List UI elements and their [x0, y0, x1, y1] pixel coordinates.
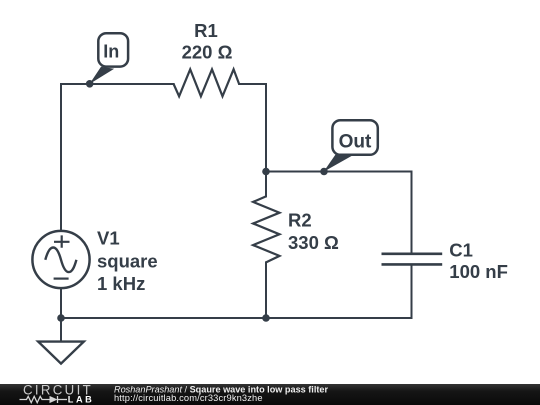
- junction dot R1/R2/Out net: [262, 168, 270, 176]
- svg-text:R1: R1: [194, 20, 218, 41]
- node In flag: [90, 33, 129, 84]
- svg-text:C1: C1: [449, 239, 473, 260]
- svg-text:http://circuitlab.com/cr33cr9k: http://circuitlab.com/cr33cr9kn3zhe: [114, 393, 263, 403]
- CircuitLab logo resistor-diode glyph: [20, 396, 68, 403]
- resistor R1 value label: [182, 20, 233, 63]
- wire C1 top lead: [411, 172, 413, 253]
- svg-text:220 Ω: 220 Ω: [182, 42, 233, 63]
- ground: [38, 342, 84, 364]
- node In junction dot: [86, 80, 94, 88]
- svg-text:R2: R2: [288, 210, 312, 231]
- node Out junction dot: [320, 168, 328, 176]
- wire R1 right lead to corner and down: [239, 84, 266, 172]
- capacitor C1 value label: [449, 239, 508, 282]
- wire top-left horizontal (In node to R1): [61, 83, 174, 85]
- junction dot R2 bottom: [262, 314, 270, 322]
- resistor R1: [174, 69, 240, 96]
- svg-text:square: square: [97, 250, 158, 271]
- wire C1 bottom lead: [411, 265, 413, 318]
- svg-text:V1: V1: [97, 228, 120, 249]
- svg-text:100 nF: 100 nF: [449, 261, 508, 282]
- capacitor C1: [382, 254, 443, 265]
- wire Out horizontal (node to C1 corner): [266, 171, 412, 173]
- voltage source V1 value label: [97, 228, 158, 294]
- CircuitLab logo wordmark: [23, 383, 93, 398]
- svg-text:1 kHz: 1 kHz: [97, 273, 145, 294]
- svg-text:In: In: [103, 42, 119, 62]
- junction dot ground net left: [57, 314, 65, 322]
- wire left vertical (top corner down to V1): [60, 84, 62, 231]
- wire bottom horizontal (ground node to C1): [61, 317, 412, 319]
- node Out flag: [324, 120, 378, 172]
- wire R2 top lead: [265, 172, 267, 197]
- wire V1 bottom to ground junction: [60, 289, 62, 341]
- svg-text:Out: Out: [339, 130, 372, 152]
- voltage source V1: [32, 231, 89, 288]
- svg-text:330 Ω: 330 Ω: [288, 232, 339, 253]
- svg-text:LAB: LAB: [68, 395, 94, 405]
- resistor R2 value label: [288, 210, 339, 254]
- resistor R2: [253, 196, 279, 262]
- wire R2 bottom lead: [265, 262, 267, 318]
